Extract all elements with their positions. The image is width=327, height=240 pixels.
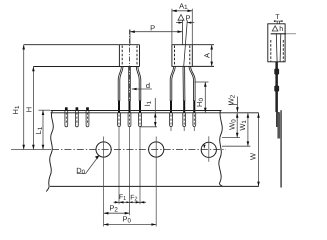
L1 arrows (42, 110, 45, 115)
carrier tape (46, 110, 259, 191)
H0 arrows (204, 82, 207, 87)
component body 2 centerline extension (182, 20, 184, 44)
tape bottom edge (50, 185, 259, 187)
tape left break (wavy) (46, 110, 53, 191)
hidden lead capsules below tape edge (component 1) (65, 111, 196, 127)
svg-text:A: A (203, 53, 212, 58)
hidden component lead stubs (66, 107, 87, 110)
T dimension line (274, 20, 283, 22)
lead 3 clamp section (thick) (139, 101, 141, 113)
H arrows (32, 67, 35, 72)
component body 2 hidden lead right (dashed) (189, 46, 191, 67)
L1 top extension (39, 109, 51, 111)
component body 2 outline (172, 45, 192, 67)
band of component bodies bottom edge (33, 66, 139, 68)
component body 2 top edge extension for A (192, 44, 214, 46)
svg-text:l1: l1 (143, 100, 153, 106)
lead 1 clamp section (thick) (118, 101, 120, 113)
d dimension leader (132, 88, 152, 90)
P0 dimension line (104, 224, 157, 226)
side view body hidden edge left (dashed) (270, 40, 272, 61)
W0 dimension line (236, 113, 238, 138)
svg-text:F2: F2 (130, 194, 137, 202)
component 2 lead extension stubs (170, 127, 172, 131)
sprocket hole 2 (149, 142, 164, 157)
F1 F2 dimension line (114, 201, 147, 203)
P left extension (component 1 centerline above body) (129, 30, 131, 45)
component body 2 bottom edge extension for A (192, 65, 214, 67)
component body 2 hidden lead left (dashed) (174, 46, 176, 67)
side view lead kink bulge upper (274, 68, 279, 76)
side view adhesive tape strip (277, 113, 280, 139)
lead 1 left of component 2 (170, 66, 174, 101)
sprocket hole 2 vertical crosshair and P0 extension (155, 137, 157, 227)
D0 leader line (77, 156, 99, 174)
side view leads behind tape (dark) (276, 112, 280, 127)
svg-text:P: P (150, 24, 155, 33)
svg-text:F1: F1 (119, 194, 126, 202)
side view leads inside body (275, 34, 278, 62)
lead 2 clamp section component 2 (thick) (183, 101, 185, 113)
side view lead shoulder line (271, 33, 286, 35)
W2 arrow (236, 107, 239, 112)
small arrow mark inside hole 3 (203, 145, 205, 149)
H dimension line (32, 67, 34, 150)
sprocket hole 1 vertical crosshair and P0/P2 extension (103, 137, 105, 227)
lead 2 (middle) extension line (129, 127, 131, 216)
T arrows (274, 20, 283, 22)
hidden lead stub 3 (86, 107, 89, 110)
adhesive tape top edge (51, 112, 259, 114)
svg-text:T: T (275, 14, 280, 21)
H0 dimension line (204, 82, 206, 113)
svg-text:d: d (146, 81, 150, 90)
label deltaP triangle (178, 15, 184, 21)
W1 dimension line (247, 113, 249, 146)
W dimension line (258, 113, 260, 186)
lead 1 extension line (118, 127, 120, 205)
svg-text:P0: P0 (122, 214, 131, 224)
T extension lines (276, 21, 278, 24)
deltaP arrows (179, 22, 183, 24)
P2 arrows (104, 212, 109, 215)
A arrows (210, 45, 213, 50)
deltaH leader line (286, 33, 296, 35)
hidden lead capsules of cut-off component (65, 111, 68, 127)
lead 2 middle of component 2 (182, 66, 184, 101)
deltaP dimension line right part (187, 22, 194, 24)
W2 dimension line (236, 97, 238, 113)
lead 2 clamp section (thick) (129, 101, 131, 113)
left bottom extension line at sprocket centerline (11, 149, 51, 151)
svg-text:P: P (185, 14, 190, 23)
svg-text:D0: D0 (76, 166, 85, 176)
side view lead kink bulge lower (274, 85, 279, 93)
hidden lead stub 1 (65, 107, 68, 110)
svg-text:W: W (249, 152, 258, 160)
W1 bottom extension (222, 145, 250, 147)
svg-text:H1: H1 (11, 105, 21, 114)
sprocket hole 3 vertical crosshair (208, 136, 210, 162)
P dimension line (130, 31, 182, 33)
carrier tape top edge (51, 110, 222, 112)
lead 3 right of component 1 (136, 67, 139, 102)
A1 dimension line (172, 10, 192, 12)
arrowheads (22, 10, 259, 226)
P2 dimension line (104, 212, 130, 214)
label deltaH triangle (272, 26, 278, 31)
extension lines from leads down to bottom dimensions (119, 127, 194, 216)
H1 dimension line (23, 45, 25, 150)
A dimension line (211, 45, 213, 67)
band of component bodies top edge (24, 44, 140, 46)
H0 top extension (seating plane) (194, 81, 208, 83)
A1 arrows (172, 10, 177, 13)
P arrows (130, 30, 135, 33)
svg-text:A1: A1 (179, 2, 188, 12)
side view body hidden edge right (dashed) (282, 40, 284, 61)
leads component 1 (118, 67, 141, 102)
lead 3 right of component 2 (189, 66, 194, 101)
sprocket hole 3 (201, 142, 216, 157)
F1 F2 arrows (119, 201, 124, 203)
l1 lead end extension (140, 126, 157, 128)
component body 2 middle lead tilted line (184, 20, 188, 66)
component body 1 hidden lead right (dashed) (136, 46, 138, 67)
side view carrier tape strip (280, 110, 282, 187)
d arrow (132, 88, 137, 91)
tape right break (wavy) (219, 110, 223, 186)
hidden lead stub 2 (76, 107, 79, 110)
lead 3 clamp section component 2 (thick) (193, 101, 195, 113)
D0 leader arrowhead (95, 155, 99, 159)
l1 dimension line (154, 98, 156, 127)
W2 tick (229, 104, 237, 106)
component body 1 hidden lead left (dashed) (121, 46, 123, 67)
svg-text:W1: W1 (238, 120, 248, 131)
svg-text:H: H (25, 107, 34, 112)
svg-text:P2: P2 (109, 203, 118, 213)
svg-text:W2: W2 (226, 94, 236, 105)
leads component 2 (170, 66, 195, 101)
lead 1 left of component 1 (118, 67, 121, 102)
tape sprocket centerline (dash-dot) (52, 149, 226, 151)
lead 2 middle of component 1 (128, 67, 130, 102)
H1 arrows (22, 45, 25, 50)
l1 arrows (154, 113, 157, 118)
side view body outline (268, 24, 285, 62)
svg-text:h: h (279, 24, 283, 33)
lead 3 extension line (139, 127, 141, 205)
deltaP dimension line left part (176, 22, 183, 24)
component body 1 centerline (129, 30, 131, 101)
side view leads below body (black) (275, 62, 278, 112)
hidden lead capsules below tape edge (component 2) (170, 113, 173, 127)
W0 bottom extension (222, 137, 240, 139)
svg-text:W0: W0 (227, 119, 237, 130)
W1 arrows (247, 113, 250, 118)
A1 right extension (191, 9, 193, 45)
L1 dimension line (42, 110, 44, 149)
W0 arrows (236, 113, 239, 118)
A1 left extension (171, 9, 173, 45)
lead 1 clamp section component 2 (thick) (170, 101, 172, 113)
svg-text:L1: L1 (34, 126, 44, 134)
svg-text:H0: H0 (195, 98, 205, 107)
P0 arrows (104, 223, 109, 226)
sprocket hole 1 (96, 142, 111, 157)
component body 1 right edge (139, 45, 141, 67)
component body 1 left edge (118, 45, 120, 67)
W arrows (257, 113, 260, 118)
